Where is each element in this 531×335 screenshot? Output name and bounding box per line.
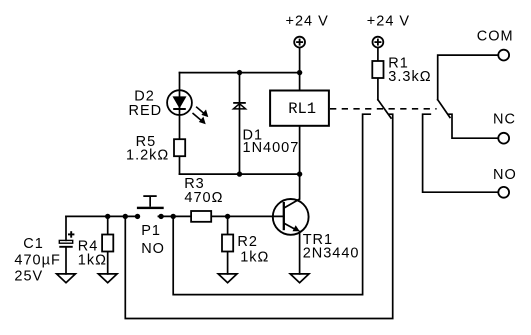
svg-text:R2: R2	[237, 234, 258, 250]
svg-text:P1: P1	[141, 223, 161, 239]
svg-text:COM: COM	[477, 28, 514, 44]
svg-text:470µF: 470µF	[14, 252, 60, 268]
svg-text:2N3440: 2N3440	[303, 246, 360, 262]
svg-text:1kΩ: 1kΩ	[240, 250, 269, 266]
svg-text:NC: NC	[493, 112, 516, 128]
svg-text:NO: NO	[493, 167, 517, 183]
svg-text:RED: RED	[129, 103, 163, 119]
svg-text:1N4007: 1N4007	[243, 140, 300, 156]
svg-text:1kΩ: 1kΩ	[78, 252, 107, 268]
svg-text:470Ω: 470Ω	[184, 190, 223, 206]
svg-text:1.2kΩ: 1.2kΩ	[126, 147, 169, 163]
svg-text:+24 V: +24 V	[286, 13, 329, 29]
svg-text:RL1: RL1	[288, 100, 316, 118]
svg-text:+24 V: +24 V	[367, 13, 410, 29]
svg-text:25V: 25V	[14, 269, 43, 285]
svg-text:NO: NO	[141, 241, 165, 257]
svg-text:C1: C1	[23, 236, 44, 252]
svg-text:3.3kΩ: 3.3kΩ	[388, 69, 431, 85]
